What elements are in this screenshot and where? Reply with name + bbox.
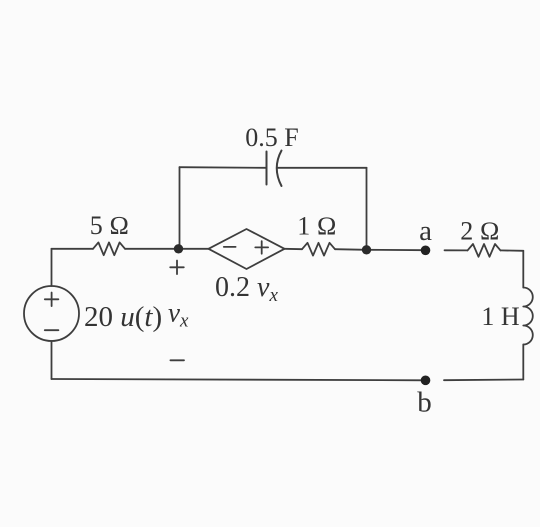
svg-text:b: b [417,387,432,419]
dependent source U1 (diamond 0.2 vx) [209,229,285,269]
wire top-left segment [52,248,94,250]
node terminal a dot [421,246,431,256]
svg-text:0.2 vx: 0.2 vx [215,272,278,306]
resistor 5 ohm [93,242,125,255]
resistor 2 ohm [468,244,501,257]
resistor 1 ohm [302,243,335,256]
minus sign inside source [45,329,59,331]
svg-text:1 Ω: 1 Ω [297,212,336,241]
capacitor 0.5 F left plate [266,152,268,185]
wire node to terminal a [367,249,426,251]
wire cap to right vertical [278,167,367,169]
inductor 1 H [523,288,533,345]
svg-text:1 H: 1 H [481,302,520,331]
svg-text:2 Ω: 2 Ω [460,217,499,246]
wire cap branch right vertical [366,168,368,250]
wire left rail bottom (source to bottom wire) [51,341,53,379]
plus sign inside diamond [255,241,268,254]
wire bottom main segment (b to left rail) [52,379,426,380]
capacitor 0.5 F right plate (curved) [277,151,282,187]
wire bottom right segment [444,379,523,382]
wire right rail lower [522,345,524,380]
svg-text:a: a [419,215,432,247]
minus sign inside diamond [224,246,236,248]
voltage source Vs circle [24,286,79,341]
wire 2 ohm to right corner [501,249,524,251]
node terminal b dot [421,376,431,386]
wire node to dependent source [179,248,209,250]
plus sign inside source [45,293,59,307]
plus sign vx polarity [170,261,184,275]
wire right rail upper [522,251,524,288]
wire 5ohm to node [125,248,179,250]
svg-text:20 u(t): 20 u(t) [84,301,162,333]
svg-text:0.5 F: 0.5 F [245,123,298,152]
wire left rail top (source to top wire) [51,249,53,286]
node junction dot (5ohm / diamond / cap branch) [174,244,183,253]
svg-text:5 Ω: 5 Ω [90,211,129,240]
wire cap branch top left horizontal [180,166,267,169]
wire 1 ohm to node [335,248,367,251]
wire terminal a gap segment to 2 ohm [445,249,468,251]
minus sign vx polarity [170,359,184,361]
node junction dot (1ohm / cap branch) [362,245,371,254]
wire cap branch left vertical [179,167,181,249]
wire dependent source to 1 ohm [285,248,303,250]
